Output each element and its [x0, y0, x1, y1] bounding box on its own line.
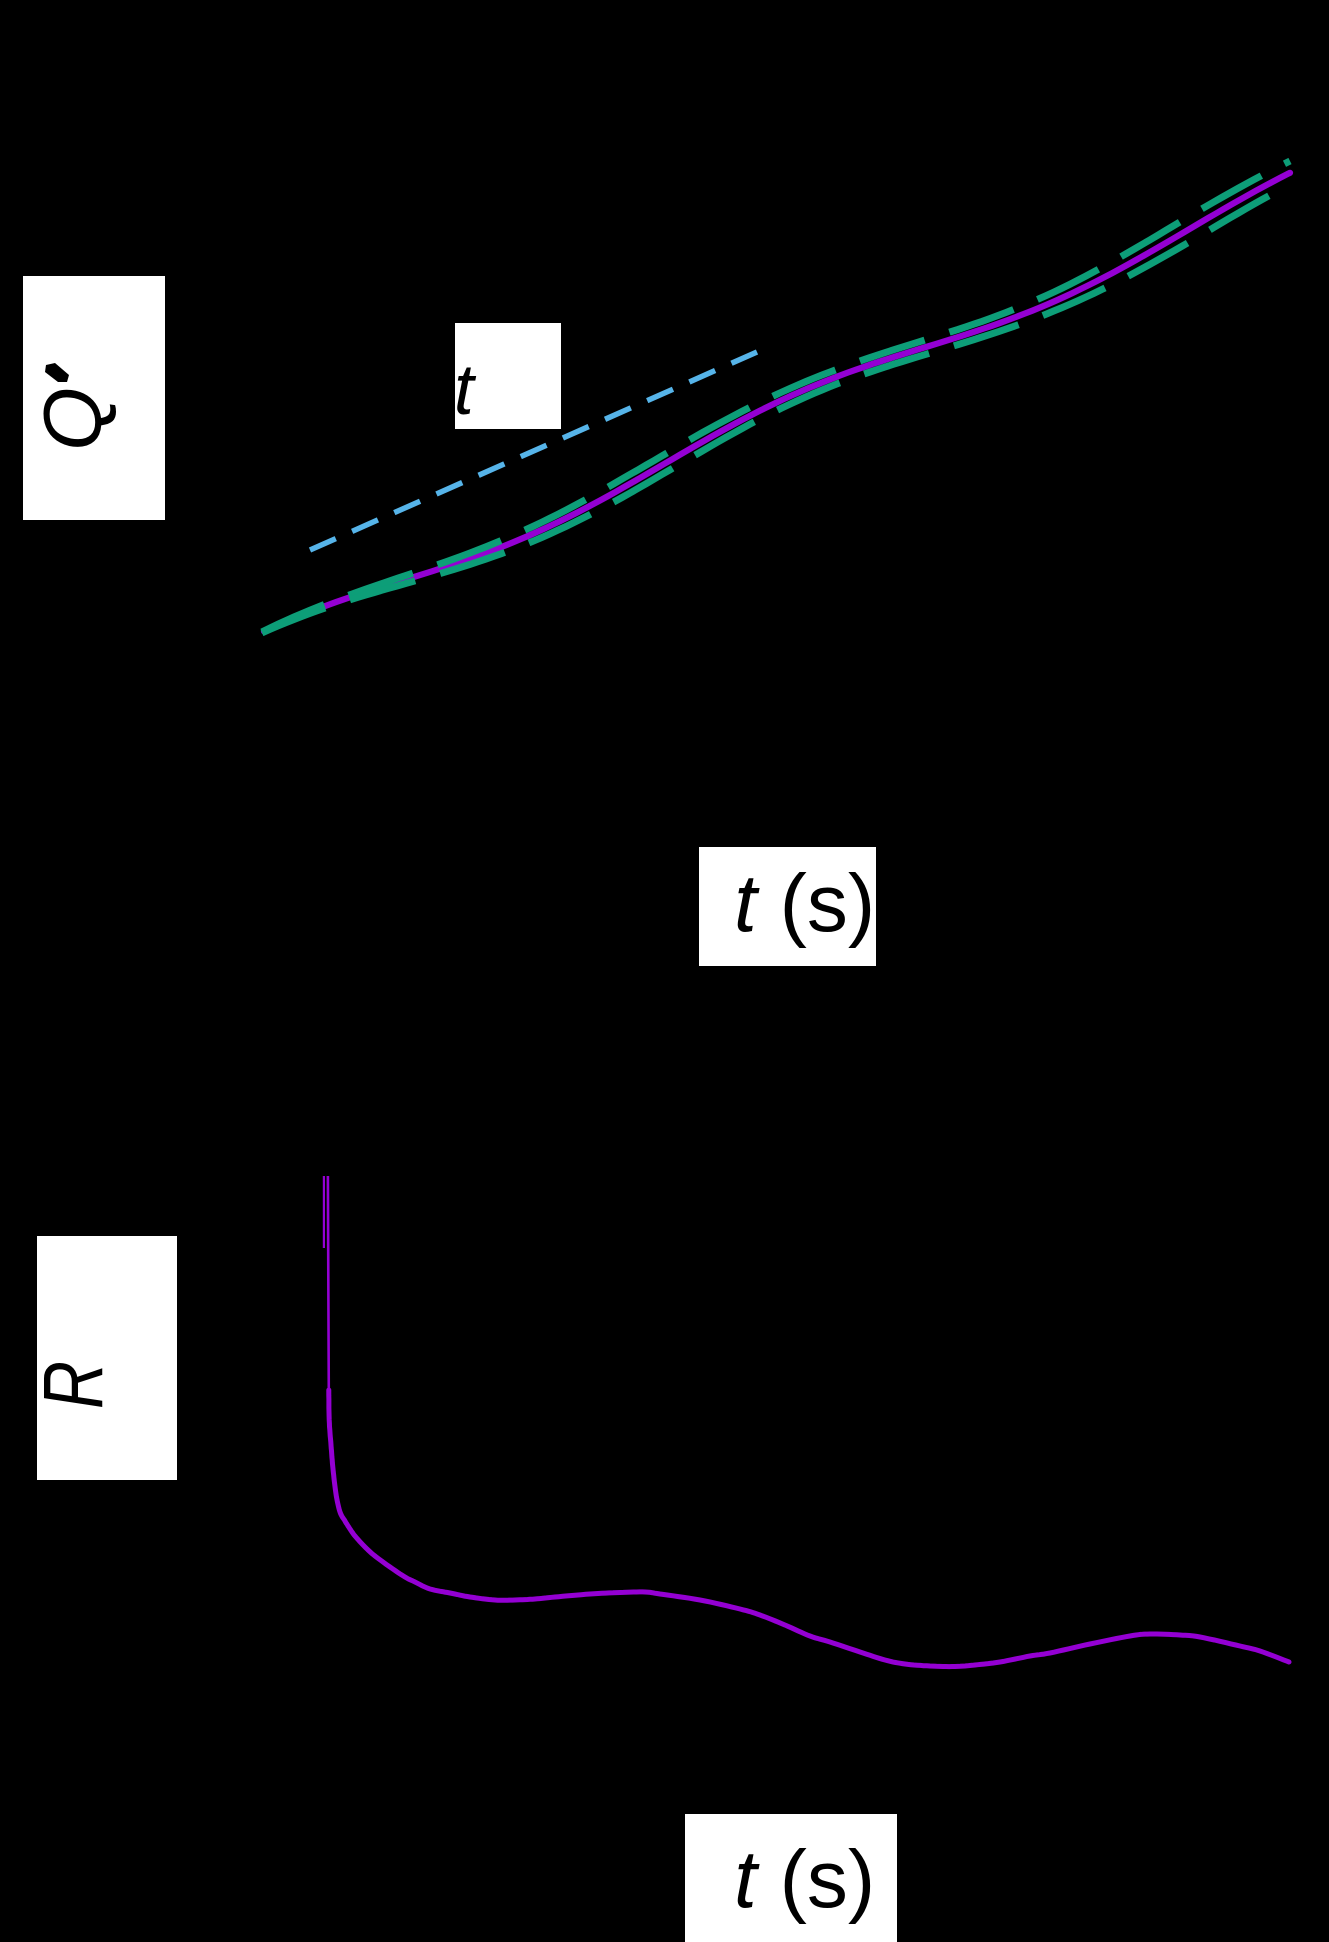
bottom x-axis label box t (s)	[685, 1814, 897, 1942]
y-axis label box R	[37, 1236, 177, 1480]
svg-text:R: R	[26, 1361, 120, 1409]
svg-text:Q: Q	[28, 387, 119, 451]
top plot: green dashed band upper curve	[262, 161, 1290, 632]
svg-text:t (s): t (s)	[734, 858, 875, 949]
prime mark of Q'	[45, 363, 69, 382]
svg-text:t (s): t (s)	[734, 1834, 875, 1925]
top x-axis label box t (s)	[699, 847, 876, 966]
bottom plot: spike left strand	[323, 1176, 325, 1248]
top plot: light blue dashed tangent line	[310, 352, 757, 550]
top plot: green dashed band lower curve	[262, 185, 1290, 633]
bottom plot: purple curve R(t)	[329, 1390, 1289, 1667]
bottom plot: spike right strand	[327, 1176, 330, 1392]
top plot: purple solid curve Q'(t)	[264, 173, 1290, 632]
tangent label box t	[455, 323, 561, 429]
svg-text:t: t	[454, 351, 477, 430]
y-axis label box Q'	[23, 276, 165, 520]
